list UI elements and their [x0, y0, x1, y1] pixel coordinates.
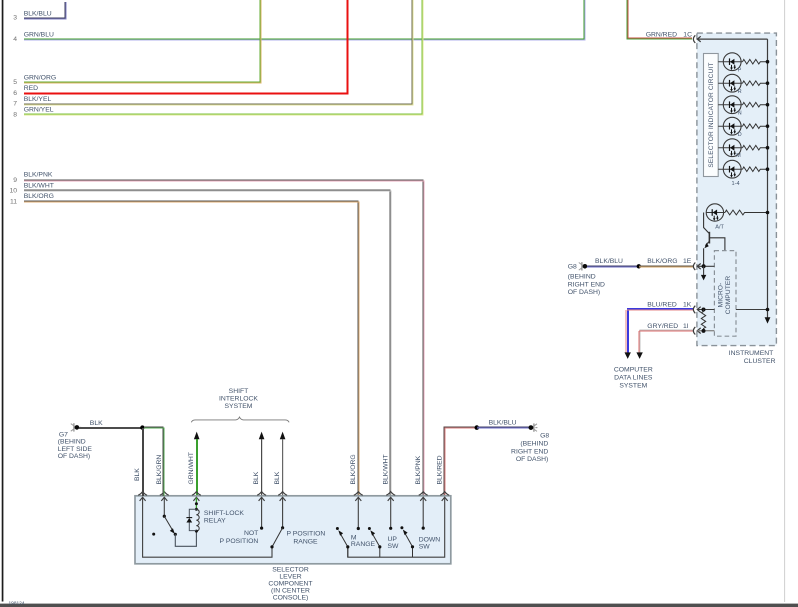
- svg-text:BLK: BLK: [274, 471, 281, 484]
- switch P POSITION RANGE (closed blade to rail): [282, 498, 284, 528]
- svg-text:1-4: 1-4: [732, 181, 740, 187]
- wire BLU/RED from cluster 1K to computer data lines: [626, 309, 693, 353]
- svg-text:RIGHT END: RIGHT END: [568, 281, 605, 288]
- ground G7: [58, 423, 93, 460]
- wire 7 BLK/YEL: right, up at x=412.6 exits top: [24, 0, 413, 105]
- ground arrow below 1E node: [703, 266, 705, 275]
- node 1I wire to micro-computer: [698, 330, 715, 332]
- wire 11 BLK/ORG: right, down at x=358.3 to selector box: [24, 201, 359, 496]
- svg-text:BLK/YEL: BLK/YEL: [24, 96, 52, 103]
- svg-text:GRY/RED: GRY/RED: [647, 323, 678, 330]
- svg-text:3: 3: [13, 15, 17, 22]
- switch blade from BLK/GRN with arrow: [164, 516, 172, 530]
- wire BLK (not p position) arrow up: [259, 432, 265, 440]
- svg-text:1I: 1I: [683, 323, 689, 330]
- entry connector symbols at box top: [138, 492, 449, 501]
- svg-text:CONSOLE): CONSOLE): [273, 595, 309, 602]
- svg-text:BLK/ORG: BLK/ORG: [647, 258, 677, 265]
- relay clamp diode branch: [189, 509, 196, 530]
- svg-text:DATA LINES: DATA LINES: [614, 374, 653, 381]
- arrow down computer data lines (right): [636, 352, 642, 359]
- svg-text:LEVER: LEVER: [279, 573, 301, 580]
- svg-text:P POSITION: P POSITION: [220, 538, 259, 545]
- bus bottom arrow: [765, 317, 771, 323]
- wire GRN/WHT inside box to relay: [195, 498, 197, 510]
- ground G8 (right middle): [568, 262, 605, 296]
- svg-text:R: R: [738, 89, 742, 95]
- LED M row: [718, 139, 769, 159]
- shift-lock relay coil: [196, 509, 199, 531]
- switch UP SW: open contact, blade, wire dot: [368, 527, 371, 530]
- svg-text:SW: SW: [419, 544, 431, 551]
- svg-text:BLK/BLU: BLK/BLU: [489, 420, 517, 427]
- connector arrow 1C: [693, 35, 700, 43]
- svg-text:CLUSTER: CLUSTER: [744, 358, 776, 365]
- page left border: [2, 0, 4, 602]
- LED D row: [718, 117, 769, 138]
- svg-text:GRN/WHT: GRN/WHT: [188, 452, 195, 484]
- node 1K wire to micro-computer: [698, 309, 715, 311]
- wire BLK/RED from selector box up then right to junction: [444, 427, 477, 496]
- svg-text:BLK/BLU: BLK/BLU: [595, 258, 623, 265]
- junction dot BLK/BLU-BLK/ORG: [637, 264, 641, 268]
- wire GRN/WHT to shift interlock (arrow up): [194, 432, 200, 440]
- svg-text:9: 9: [13, 177, 17, 184]
- svg-text:BLK/ORG: BLK/ORG: [24, 193, 54, 200]
- wire contact to relay bottom: [175, 531, 196, 546]
- svg-text:COMPUTER: COMPUTER: [614, 366, 653, 373]
- svg-text:GRN/RED: GRN/RED: [646, 31, 677, 38]
- connector arrow 1K: [693, 306, 700, 314]
- switch BLK/GRN pivot dot: [163, 498, 165, 517]
- label selector lever component: [268, 566, 312, 601]
- svg-text:6: 6: [13, 90, 17, 97]
- svg-text:BLK/BLU: BLK/BLU: [24, 10, 52, 17]
- label computer data lines system: [614, 366, 653, 389]
- LED N row: [718, 96, 769, 117]
- svg-text:SELECTOR INDICATOR CIRCUIT: SELECTOR INDICATOR CIRCUIT: [708, 62, 715, 167]
- LED A/T: [706, 204, 769, 231]
- svg-text:10: 10: [9, 188, 17, 195]
- wire 8 GRN/YEL: right, up at x=422.8 exits top: [24, 0, 423, 115]
- svg-text:RELAY: RELAY: [204, 518, 226, 525]
- svg-text:GRN/ORG: GRN/ORG: [24, 74, 56, 81]
- svg-text:SHIFT-LOCK: SHIFT-LOCK: [204, 510, 244, 517]
- svg-text:(IN CENTER: (IN CENTER: [271, 588, 310, 595]
- junction dot BLK/RED-BLK/BLU: [475, 425, 480, 430]
- wire GRY/RED from cluster 1I to computer data lines: [639, 330, 693, 353]
- svg-text:5: 5: [13, 79, 17, 86]
- wire BLK from G7 to junction: [79, 427, 142, 429]
- shift interlock system label: [219, 388, 258, 410]
- wire BLK (p position range) arrow up: [280, 432, 286, 440]
- switch DOWN SW: open contact, blade, wire dot: [400, 526, 403, 529]
- svg-text:RANGE: RANGE: [293, 539, 318, 546]
- svg-text:SW: SW: [388, 543, 400, 550]
- wire GRN/RED from top to cluster 1C: [627, 0, 692, 39]
- wire BLK down to selector box: [142, 428, 144, 496]
- svg-text:BLK/PNK: BLK/PNK: [24, 172, 53, 179]
- contact NOT P POSITION: [261, 498, 263, 528]
- svg-text:M: M: [736, 153, 741, 159]
- contact dot to relay: [174, 533, 177, 536]
- svg-text:P: P: [738, 68, 742, 74]
- arrow down computer data lines (left): [625, 352, 631, 359]
- junction dot G7 branch: [140, 425, 144, 429]
- LED P row: [718, 53, 769, 74]
- svg-text:OF DASH): OF DASH): [58, 453, 90, 460]
- selector lever component box: [135, 496, 451, 564]
- svg-text:COMPUTER: COMPUTER: [725, 276, 732, 315]
- svg-text:198124: 198124: [9, 601, 25, 607]
- wire 5 GRN/ORG: right, up at x=261.2 exits top: [24, 0, 261, 83]
- transistor Q1: [704, 213, 725, 267]
- resistor between 1K and 1I: [701, 310, 705, 330]
- wire BLK/BLU to ground G8: [477, 427, 529, 428]
- svg-text:SHIFT: SHIFT: [229, 388, 249, 395]
- svg-text:D: D: [738, 132, 742, 138]
- svg-text:(BEHIND: (BEHIND: [520, 441, 548, 448]
- svg-text:NOT: NOT: [244, 530, 258, 537]
- wire micro-computer to bus: [736, 309, 768, 311]
- node 1E wire to micro-computer: [698, 265, 715, 267]
- svg-text:G8: G8: [540, 433, 549, 440]
- svg-text:GRN/BLU: GRN/BLU: [24, 32, 54, 39]
- svg-text:RIGHT END: RIGHT END: [511, 448, 548, 455]
- micro-computer dashed box: [714, 251, 736, 337]
- svg-text:OF DASH): OF DASH): [516, 456, 548, 463]
- svg-text:OF DASH): OF DASH): [568, 289, 600, 296]
- wire BLK inside box down to left rail: [143, 498, 272, 558]
- open contact dot (left): [152, 533, 155, 536]
- svg-text:A/T: A/T: [715, 225, 724, 231]
- svg-text:8: 8: [13, 112, 17, 119]
- wire 9 BLK/PNK: right, down at x=423.2 to selector box: [24, 180, 424, 496]
- svg-text:DOWN: DOWN: [419, 537, 441, 544]
- svg-text:INSTRUMENT: INSTRUMENT: [729, 350, 774, 357]
- svg-text:BLK/WHT: BLK/WHT: [24, 183, 54, 190]
- wire BLK/BLU from G8 to junction: [587, 266, 639, 267]
- page bottom bar: [0, 604, 798, 607]
- LED R row: [718, 74, 769, 95]
- selector indicator circuit box: [704, 54, 719, 177]
- svg-text:BLK/GRN: BLK/GRN: [156, 455, 163, 485]
- svg-text:GRN/YEL: GRN/YEL: [24, 106, 54, 113]
- ground G8 (behind right end of dash, lower): [511, 423, 549, 463]
- svg-text:11: 11: [10, 198, 17, 205]
- svg-text:1C: 1C: [683, 31, 692, 38]
- wire 1C to right bus: [698, 38, 768, 40]
- svg-text:G7: G7: [59, 432, 68, 439]
- svg-text:(BEHIND: (BEHIND: [568, 274, 596, 281]
- svg-text:UP: UP: [388, 536, 398, 543]
- svg-text:N: N: [738, 111, 742, 117]
- svg-text:RED: RED: [24, 85, 38, 92]
- instrument cluster dashed box: [697, 33, 777, 346]
- svg-text:BLK: BLK: [134, 468, 141, 481]
- svg-text:BLK/ORG: BLK/ORG: [350, 454, 357, 484]
- svg-text:COMPONENT: COMPONENT: [268, 581, 312, 588]
- svg-text:BLK: BLK: [90, 420, 103, 427]
- svg-text:SYSTEM: SYSTEM: [619, 382, 647, 389]
- svg-text:SYSTEM: SYSTEM: [225, 403, 253, 410]
- wire BLK/RED inside box down to right rail: [348, 498, 445, 558]
- svg-text:BLU/RED: BLU/RED: [647, 302, 677, 309]
- svg-text:SELECTOR: SELECTOR: [272, 566, 309, 573]
- svg-text:7: 7: [13, 101, 17, 108]
- svg-text:4: 4: [13, 36, 17, 43]
- brace over shift interlock wires: [191, 417, 289, 422]
- wire BLK/GRN from junction right and down to box: [144, 427, 164, 496]
- wire 6 RED: right, up at x=347.5 exits top: [24, 0, 348, 94]
- wire BLK/ORG to cluster 1E: [639, 266, 693, 267]
- wire 3 BLK/BLU: left edge right then up exits top at x=66.2: [24, 2, 66, 19]
- wire 10 BLK/WHT: right, down at x=390.7 to selector box: [24, 190, 391, 496]
- connector arrow 1E: [693, 263, 700, 271]
- svg-text:1E: 1E: [683, 258, 692, 265]
- svg-text:LEFT SIDE: LEFT SIDE: [58, 446, 93, 453]
- svg-text:MICRO-: MICRO-: [718, 283, 725, 308]
- wire 4 GRN/BLU: runs right, up at x=585 exits top: [24, 0, 585, 40]
- svg-text:BLK: BLK: [253, 471, 260, 484]
- svg-text:1K: 1K: [683, 302, 692, 309]
- svg-text:BLK/PNK: BLK/PNK: [415, 455, 422, 484]
- svg-text:G8: G8: [568, 263, 577, 270]
- svg-text:BLK/WHT: BLK/WHT: [382, 454, 389, 484]
- svg-text:RANGE: RANGE: [351, 541, 376, 548]
- connector arrow 1I: [693, 327, 700, 335]
- svg-text:(BEHIND: (BEHIND: [58, 439, 86, 446]
- svg-text:BLK/RED: BLK/RED: [436, 455, 443, 484]
- page right border: [783, 0, 786, 602]
- switch M RANGE: open contact, blade, wire dot: [336, 527, 339, 530]
- svg-text:INTERLOCK: INTERLOCK: [219, 395, 258, 402]
- LED 1-4 row: [718, 160, 769, 187]
- svg-text:P POSITION: P POSITION: [287, 531, 326, 538]
- right bus vertical: [767, 39, 769, 318]
